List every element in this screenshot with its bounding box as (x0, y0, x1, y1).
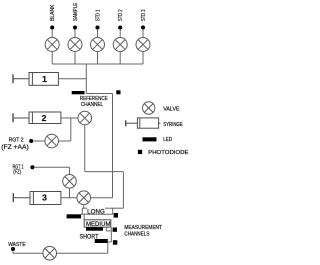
node STD 3 label (141, 10, 147, 22)
node STD 2 port dot (118, 25, 122, 29)
svg-text:MEDIUM: MEDIUM (86, 221, 111, 228)
wire long channel top edge right stub (105, 207, 113, 209)
node STD 3 port dot (141, 25, 145, 29)
svg-text:RGT 2: RGT 2 (9, 138, 24, 144)
wire SAMPLE dot to valve (74, 29, 76, 38)
svg-text:STD 3: STD 3 (141, 10, 147, 22)
wire reference valve down (84, 125, 86, 172)
valve V9 mixing (77, 191, 91, 205)
wire STD1 dot to valve (97, 29, 99, 38)
LED medium channel (86, 227, 103, 231)
legend label SYRINGE (163, 122, 183, 128)
legend valve symbol (143, 102, 155, 114)
label MEDIUM box (84, 220, 111, 227)
svg-text:VALVE: VALVE (163, 106, 180, 112)
wire T junction down to RGT2 valve (70, 118, 72, 141)
photodiode medium channel (113, 228, 117, 232)
valve V6 reference (78, 111, 92, 125)
wire syringe S2 output to reference valve (61, 117, 78, 119)
node RGT1 dot (30, 165, 34, 169)
svg-text:SAMPLE: SAMPLE (73, 3, 79, 21)
node STD 2 label (118, 10, 124, 22)
svg-text:3: 3 (42, 193, 47, 203)
wire BLANK dot to valve (51, 29, 53, 38)
svg-text:PHOTODIODE: PHOTODIODE (148, 150, 189, 156)
label WASTE (8, 242, 26, 248)
svg-text:1: 1 (42, 74, 47, 84)
legend photodiode symbol (138, 150, 142, 154)
wire waste line left segment (13, 252, 43, 254)
wire bus drop to reference channel (85, 64, 87, 94)
wire medium to short connector (110, 227, 112, 242)
svg-text:(FZ): (FZ) (13, 170, 21, 176)
valve V5 STD3 (136, 38, 150, 52)
svg-text:(FZ +AA): (FZ +AA) (1, 145, 28, 151)
wire bend to long channel inlet (85, 171, 124, 173)
label LONG (87, 208, 105, 215)
wire RGT2 valve to junction (58, 140, 71, 142)
valve V3 STD1 (91, 38, 105, 52)
legend label VALVE (163, 106, 180, 112)
wire valve V3 to bus (97, 51, 99, 64)
svg-text:REFERENCE: REFERENCE (80, 96, 108, 102)
wire long channel left edge (81, 208, 83, 214)
svg-text:STD 2: STD 2 (118, 10, 124, 22)
valve V8 RGT1 (63, 175, 77, 189)
svg-text:CHANNEL: CHANNEL (81, 102, 104, 108)
wire short channel outlet down (107, 243, 109, 253)
svg-text:BLANK: BLANK (50, 4, 56, 21)
wire valve V2 to bus (74, 51, 76, 64)
wire reference channel right side down (112, 94, 114, 198)
wire mixing valve down to long channel (83, 204, 85, 208)
node STD 1 label (95, 10, 101, 22)
svg-text:MEASUREMENT: MEASUREMENT (124, 225, 162, 231)
wire mixing valve right to reference return (90, 197, 112, 199)
label SHORT (80, 233, 99, 240)
legend label PHOTODIODE (148, 150, 189, 156)
wire waste line right segment (57, 252, 108, 254)
wire medium channel outlet elbow (105, 227, 107, 231)
svg-text:2: 2 (42, 113, 47, 123)
syringe S2 (13, 112, 61, 124)
LED reference channel (72, 91, 85, 94)
wire valve V4 to bus (119, 51, 121, 64)
wire corner down to RGT1 valve (69, 167, 71, 175)
wire selection bus (52, 63, 143, 65)
valve V7 RGT2 (45, 134, 59, 148)
node SAMPLE port dot (73, 25, 77, 29)
wire syringe S1 output (58, 78, 86, 80)
valve V2 SAMPLE (68, 38, 82, 52)
legend label LED (163, 137, 172, 143)
wire valve V1 to bus (51, 51, 53, 64)
wire RGT1 dot to corner (34, 166, 69, 168)
svg-text:LED: LED (163, 137, 172, 143)
node BLANK label (50, 4, 56, 21)
node BLANK port dot (50, 25, 54, 29)
label RGT 1 (13, 164, 24, 175)
legend syringe symbol (126, 118, 161, 128)
wire long channel top edge left stub (82, 207, 87, 209)
node WASTE dot (11, 247, 15, 251)
photodiode reference channel (116, 90, 120, 94)
valve V10 waste (43, 246, 57, 260)
wire STD2 dot to valve (119, 29, 121, 38)
wire STD3 dot to valve (142, 29, 144, 38)
label RGT 2 (1, 138, 28, 152)
wire waste dot stem (12, 250, 14, 254)
wire RGT2 dot to valve (33, 140, 45, 142)
wire RGT1 valve down to syringe3 line (69, 188, 71, 198)
node STD 1 port dot (95, 25, 99, 29)
wire long channel line (81, 213, 113, 215)
legend LED symbol (143, 137, 157, 141)
syringe S1 (13, 73, 58, 86)
valve V1 BLANK (45, 38, 59, 52)
wire valve V5 to bus (142, 51, 144, 64)
LED short channel (95, 239, 108, 243)
wire syringe S3 output to mixing valve (61, 197, 77, 199)
svg-text:SYRINGE: SYRINGE (163, 122, 183, 128)
LED long channel (67, 214, 81, 218)
wire long channel inlet step (112, 208, 114, 214)
valve V4 STD2 (113, 38, 127, 52)
node RGT2 dot (29, 139, 33, 143)
node SAMPLE label (73, 3, 79, 21)
svg-text:STD 1: STD 1 (95, 10, 101, 22)
wire reference optical path (86, 93, 112, 95)
label REFERENCE CHANNEL (80, 96, 108, 108)
photodiode long channel (114, 213, 118, 218)
wire long to medium connector (83, 214, 85, 220)
svg-text:WASTE: WASTE (8, 242, 26, 248)
svg-text:CHANNELS: CHANNELS (124, 231, 149, 237)
label MEASUREMENT CHANNELS (124, 225, 162, 238)
syringe S3 (13, 192, 61, 205)
photodiode short channel (113, 240, 117, 245)
